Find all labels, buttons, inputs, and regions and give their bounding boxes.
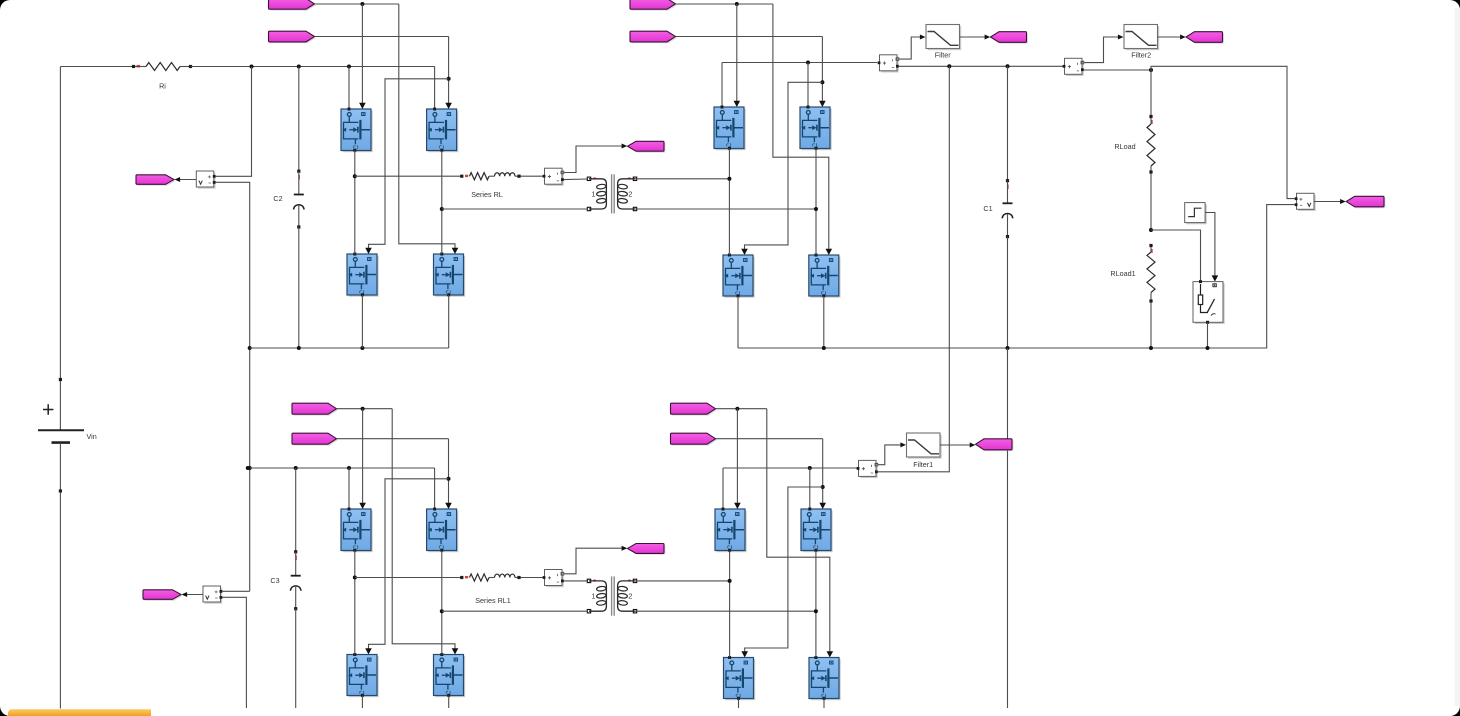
svg-text:2: 2: [628, 592, 632, 601]
wire output rail: [899, 65, 1063, 67]
goto tag iLs: [628, 141, 666, 152]
node breaker rail: [1206, 346, 1210, 350]
wire top rail bridge B: [722, 62, 877, 64]
port Q2 drain: [433, 108, 436, 111]
wire tag D2 line: [716, 438, 823, 440]
wire mid A to Series RL: [355, 175, 462, 177]
goto tag Vab1: [136, 175, 175, 186]
port Q6 drain: [807, 106, 810, 109]
wire tag A1 line: [315, 3, 399, 5]
port Q12 source: [447, 694, 450, 697]
current meter Im4: [857, 460, 878, 478]
filter block Filter: [926, 25, 961, 60]
wire gate Q10: [445, 439, 452, 509]
port Q5 drain: [721, 106, 724, 109]
svg-text:1: 1: [591, 592, 595, 601]
port Q13 source: [728, 549, 731, 552]
node railC C3: [294, 466, 298, 470]
node mid A right: [440, 207, 444, 211]
node Vm1minus railC: [248, 466, 252, 470]
svg-text:Series RL1: Series RL1: [475, 596, 511, 605]
port Q7 drain: [728, 254, 731, 257]
mosfet Q16: [809, 658, 841, 701]
wire Vm3 minus: [1267, 205, 1295, 348]
mosfet Q14: [801, 509, 833, 552]
wire gate Q5: [734, 4, 741, 107]
wire junction to breaker: [1151, 230, 1201, 280]
wire Filter1 out: [940, 443, 975, 448]
wire Im5 out to transformer: [564, 580, 588, 582]
right scrollbar strip: [1455, 8, 1460, 706]
current meter Im5: [543, 570, 564, 588]
current meter Im1: [543, 168, 564, 186]
series RL branch: [460, 173, 520, 200]
wire Im3 signal: [1084, 35, 1124, 63]
port Q14 drain: [808, 508, 811, 511]
port Q12 drain: [440, 653, 443, 656]
wire Im4 out: [878, 471, 949, 472]
port Q10 drain: [433, 508, 436, 511]
wire tag B1 line: [676, 3, 773, 5]
wire top rail bridge D: [723, 467, 857, 469]
wire to right loop: [1151, 66, 1295, 198]
svg-text:C3: C3: [270, 576, 279, 585]
port Q11 drain: [353, 653, 356, 656]
wire mid C right to Tr2: [442, 610, 588, 612]
wire drop to Im4: [948, 66, 950, 470]
wire tag B2 line: [676, 36, 823, 38]
port Q4 drain: [440, 253, 443, 256]
port Q4 source: [447, 293, 450, 296]
port Q1 source: [353, 149, 356, 152]
filter block Filter1: [907, 433, 942, 469]
node rail-Q1 drain: [347, 65, 351, 69]
voltage meter Vm3: [1295, 193, 1316, 211]
wire tag D1 line: [716, 408, 767, 410]
wire Tr1 secondary top: [635, 178, 729, 180]
node mid C right: [440, 609, 444, 613]
svg-text:Ri: Ri: [159, 81, 166, 90]
node mid D left: [728, 579, 732, 583]
resistor RLoad: [1114, 115, 1155, 174]
port Q1 drain: [348, 108, 351, 111]
transformer Tr2: [587, 576, 636, 615]
mosfet Q3: [347, 254, 379, 297]
port Q8 drain: [815, 254, 818, 257]
wire RLoad1 down: [1150, 303, 1152, 349]
wire top rail bridge A: [191, 66, 435, 68]
orange status bar: [8, 709, 151, 716]
node tag A2 branch: [447, 77, 451, 81]
svg-text:C1: C1: [983, 204, 992, 213]
wire Q13 drain drop: [722, 468, 724, 509]
port Q8 source: [822, 294, 825, 297]
from tag A1: [269, 0, 316, 11]
port Q14 source: [814, 549, 817, 552]
wire leg A right: [441, 151, 443, 255]
mosfet Q9: [341, 509, 373, 552]
wire Vm1 out: [175, 177, 197, 182]
wire Q6 drain drop: [807, 63, 809, 108]
node Vm1minus railA: [248, 346, 252, 350]
breaker block: [1193, 280, 1225, 324]
wire C1 rail down: [1007, 348, 1009, 708]
wire gate Q9: [359, 409, 366, 509]
wire tag C2 line: [337, 438, 449, 440]
step block Step: [1185, 203, 1207, 225]
wire Im2 signal: [899, 35, 926, 60]
port Q9 source: [353, 549, 356, 552]
wire Tr2 secondary bottom: [635, 610, 816, 612]
wire tag D1 to Q16 gate: [767, 409, 833, 658]
from tag C2: [292, 433, 338, 445]
node mid B left: [727, 177, 731, 181]
goto tag iLs1: [628, 544, 666, 555]
wire leg A left: [354, 151, 356, 255]
wire tag D2 to Q15 gate: [741, 487, 822, 658]
node tag B2 branch: [820, 80, 824, 84]
from tag D2: [671, 433, 717, 445]
wire Q15 source drop: [738, 699, 740, 709]
wire Q16 source drop: [823, 699, 825, 709]
node outrail drop: [947, 64, 951, 68]
wire Q3 source drop: [361, 295, 363, 348]
svg-text:Filter: Filter: [935, 50, 952, 59]
capacitor C2: [273, 67, 304, 349]
svg-text:Vin: Vin: [86, 432, 96, 441]
wire Q4 source drop: [448, 295, 450, 348]
series RL1 branch: [460, 574, 520, 605]
wire leg B left: [728, 149, 730, 256]
wire leg D right: [815, 551, 817, 658]
node tag D1 branch: [735, 407, 739, 411]
mosfet Q13: [715, 509, 747, 552]
wire tag C1 to Q12 gate: [392, 409, 458, 655]
resistor RLoad1: [1110, 244, 1155, 303]
port Q13 drain: [722, 508, 725, 511]
goto tag Vout: [1346, 196, 1385, 208]
port Q16 drain: [814, 656, 817, 659]
wire leg C left: [354, 551, 356, 655]
wire mid A right to Tr1: [442, 208, 588, 210]
wire tag C1 line: [337, 408, 393, 410]
wire Q7 source drop: [737, 296, 739, 348]
wire Step to breaker: [1205, 213, 1218, 282]
wire bottom rail bridge A: [250, 347, 449, 349]
port Q16 source: [823, 697, 826, 700]
dc source Vin: [38, 378, 97, 493]
node mid A left: [353, 174, 357, 178]
svg-text:C2: C2: [273, 194, 282, 203]
current meter Im2: [878, 55, 899, 73]
wire Q5 drain drop: [721, 63, 723, 108]
mosfet Q15: [724, 658, 756, 701]
node tag A1 branch: [360, 2, 364, 6]
mosfet Q4: [434, 254, 466, 297]
port Q3 drain: [353, 253, 356, 256]
node tag C1 branch: [361, 407, 365, 411]
wire Im1 signal: [564, 144, 628, 173]
capacitor C1: [983, 66, 1012, 348]
wire Tr1 secondary bottom: [635, 208, 816, 210]
wire Im3 out: [1084, 69, 1151, 71]
node outrail C1: [1006, 64, 1010, 68]
wire gate Q13: [734, 409, 741, 509]
port Q7 source: [737, 294, 740, 297]
mosfet Q7: [723, 255, 755, 298]
node railA-Q3: [360, 346, 364, 350]
from tag C1: [292, 403, 338, 415]
node rail-Q6 drain: [806, 61, 810, 65]
wire gate Q1: [359, 4, 366, 109]
from tag A2: [269, 31, 316, 43]
wire Vin- down: [59, 493, 61, 709]
node railA-C2: [297, 346, 301, 350]
node tag C2 branch: [447, 477, 451, 481]
wire leg D left: [729, 551, 731, 658]
wire Filter out: [960, 35, 991, 40]
wire Series RL1 to Im4b: [521, 577, 543, 579]
wire tag C2 to Q11 gate: [365, 479, 448, 655]
wire leg B right: [815, 149, 817, 256]
wire Q9 drain drop: [348, 468, 350, 509]
node load junction top: [1149, 68, 1153, 72]
wire Im1 out to transformer: [564, 178, 588, 181]
port Q3 source: [361, 293, 364, 296]
svg-text:2: 2: [628, 190, 632, 199]
port Q9 drain: [348, 508, 351, 511]
wire gate Q6: [819, 37, 826, 108]
wire Q11 source drop: [361, 696, 363, 709]
wire Vin+ to Ri: [60, 66, 133, 68]
mosfet Q10: [427, 509, 459, 552]
node rail-C2: [297, 65, 301, 69]
wire Filter2 out: [1158, 35, 1186, 40]
wire Vin+ vertical: [59, 67, 61, 380]
wire Tr2 secondary top: [635, 580, 730, 582]
from tag B1: [630, 0, 677, 11]
port Q6 source: [815, 147, 818, 150]
voltage meter Vm1: [196, 171, 215, 189]
wire Q14 drain drop: [809, 468, 811, 509]
wire Vm3 out: [1314, 199, 1346, 204]
wire tag B1 to Q8 gate: [773, 4, 832, 255]
wire Vm1 minus: [215, 182, 250, 591]
wire Q1 drain drop: [348, 67, 350, 110]
goto tag Vo: [991, 32, 1028, 44]
node load junction mid: [1149, 228, 1153, 232]
node tag B1 branch: [735, 2, 739, 6]
wire gate Q14: [819, 439, 826, 509]
port Q15 drain: [728, 656, 731, 659]
wire breaker down: [1207, 322, 1209, 348]
current meter Im3: [1063, 58, 1084, 76]
wire bottom rail right: [738, 347, 1267, 349]
wire gate Q2: [445, 37, 452, 110]
svg-text:Filter1: Filter1: [913, 460, 933, 469]
wire tag A1 to Q4 gate: [399, 4, 459, 254]
wire tag A2 to Q3 gate: [365, 79, 448, 254]
port Q2 source: [440, 149, 443, 152]
mosfet Q6: [800, 107, 832, 150]
wire Vm1 plus: [215, 67, 252, 177]
node mid D right: [814, 609, 818, 613]
wire Im4 signal: [878, 442, 906, 464]
wire top rail bridge C: [248, 467, 435, 469]
wire RLoad to junction: [1150, 174, 1152, 231]
resistor Ri: [132, 63, 192, 91]
svg-text:1: 1: [591, 190, 595, 199]
node railD Q14: [808, 466, 812, 470]
goto tag Vo1: [976, 439, 1014, 451]
mosfet Q2: [427, 109, 459, 152]
from tag B2: [630, 31, 677, 43]
node mid C left: [353, 576, 357, 580]
node railC Q9: [347, 466, 351, 470]
mosfet Q12: [434, 655, 466, 698]
wire Im5 signal: [564, 546, 628, 574]
wire Q12 source drop: [448, 696, 450, 709]
wire Vm2 plus: [222, 590, 250, 592]
filter block Filter2: [1124, 25, 1159, 60]
wire tag A2 line: [315, 36, 449, 38]
svg-text:RLoad1: RLoad1: [1110, 269, 1135, 278]
mosfet Q5: [714, 107, 746, 150]
svg-text:RLoad: RLoad: [1114, 142, 1135, 151]
svg-text:Filter2: Filter2: [1131, 50, 1151, 59]
wire leg C right: [441, 551, 443, 655]
wire Series RL to Im1: [521, 175, 543, 177]
capacitor C3: [270, 468, 301, 708]
wire Q8 source drop: [823, 296, 825, 348]
node mid B right: [814, 207, 818, 211]
node railB-Q8: [822, 346, 826, 350]
node railC left: [246, 466, 250, 470]
mosfet Q8: [809, 255, 841, 298]
node rail-vmeterA: [250, 65, 254, 69]
transformer Tr1: [587, 174, 636, 213]
wire to RLoad: [1150, 70, 1152, 117]
wire mid C to Series RL1: [355, 577, 462, 579]
wire Q10 drain drop: [434, 468, 436, 509]
svg-text:Series RL: Series RL: [471, 190, 503, 199]
port Q5 source: [728, 147, 731, 150]
node tag D2 branch: [821, 485, 825, 489]
node RLoad1 rail: [1149, 346, 1153, 350]
wire Vm2 minus: [222, 597, 247, 708]
goto tag Vab2: [143, 590, 182, 601]
port Q10 source: [440, 549, 443, 552]
wire Vm2 out: [182, 592, 204, 597]
wire tag B2 to Q7 gate: [741, 82, 822, 255]
from tag D1: [671, 403, 717, 415]
port Q15 source: [737, 697, 740, 700]
wire Q2 drain drop: [434, 67, 436, 110]
mosfet Q11: [347, 655, 379, 698]
port Q11 source: [361, 694, 364, 697]
voltage meter Vm2: [203, 586, 222, 604]
goto tag Vo2: [1186, 32, 1224, 44]
mosfet Q1: [341, 109, 373, 152]
node C1 bottom rail: [1006, 346, 1010, 350]
